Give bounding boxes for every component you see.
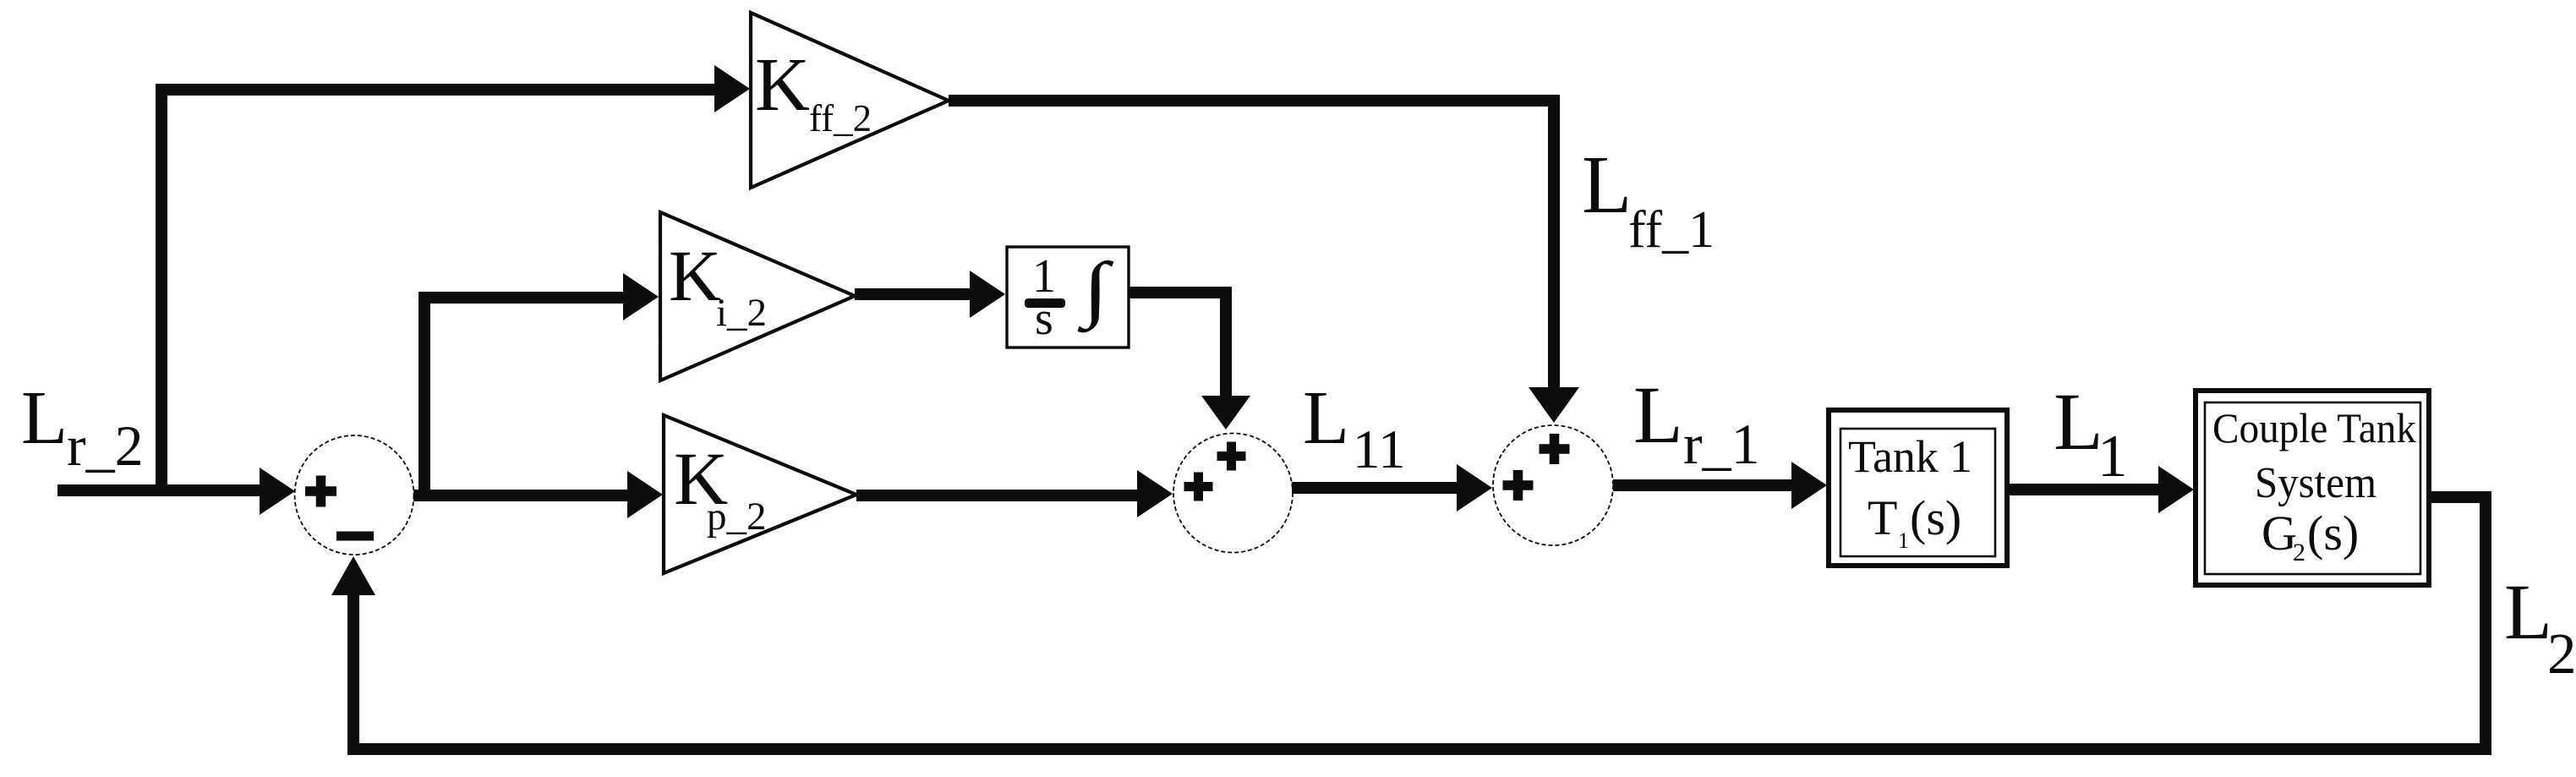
svg-text:L: L [1633, 369, 1683, 460]
svg-text:i_2: i_2 [716, 291, 767, 335]
svg-text:K: K [669, 235, 721, 316]
svg-text:L: L [2504, 569, 2552, 656]
node L_1 label [2054, 376, 2128, 490]
wire S3 output to Tank 1 [1613, 462, 1827, 509]
wire integrator output elbow down into summing junction S2 [1129, 287, 1250, 430]
wire K_i_2 output into integrator [855, 271, 1005, 318]
svg-text:(s): (s) [1910, 490, 1961, 545]
svg-text:2: 2 [2293, 539, 2305, 566]
svg-text:G: G [2262, 506, 2297, 561]
node L_ff_1 label [1582, 140, 1715, 259]
gain K_ff_2 triangle [751, 13, 949, 188]
svg-text:1: 1 [2097, 424, 2128, 490]
block Tank 1 T1(s) [1829, 410, 2007, 566]
wire K_p_2 output to S2 [856, 470, 1173, 517]
node L_11 label [1303, 376, 1406, 480]
gain K_i_2 triangle [660, 212, 855, 380]
svg-text:(s): (s) [2307, 506, 2359, 561]
wire S2 output to S3 [1292, 464, 1492, 512]
wire top horizontal to K_ff_2 [156, 65, 750, 112]
svg-text:System: System [2255, 459, 2376, 507]
svg-text:T: T [1868, 490, 1897, 545]
summing junction S1 [295, 435, 414, 555]
summing junction S2 [1173, 434, 1293, 553]
svg-text:L: L [1303, 376, 1349, 460]
svg-text:r_2: r_2 [67, 413, 144, 478]
svg-text:1: 1 [1898, 528, 1909, 553]
svg-text:Couple Tank: Couple Tank [2212, 404, 2416, 451]
svg-text:11: 11 [1353, 419, 1406, 480]
wire feedback up arrow into S1 bottom [331, 556, 375, 755]
node L_r_1 label [1633, 369, 1760, 476]
wire K_ff_2 output right then down (L_ff_1 wire) [949, 95, 1579, 423]
svg-text:s: s [1035, 293, 1053, 345]
node Lr_2 input label [21, 376, 144, 478]
gain K_p_2 triangle [664, 415, 856, 573]
svg-text:∫: ∫ [1077, 247, 1114, 333]
svg-text:p_2: p_2 [707, 495, 767, 539]
summing junction S3 [1493, 425, 1613, 545]
wire feedback from Couple Tank output down and along bottom [347, 491, 2491, 755]
svg-text:r_1: r_1 [1683, 412, 1760, 476]
wire branch vertical from input line up to feedforward line [156, 84, 167, 492]
wire branch up to K_i_2 [418, 273, 659, 501]
wire summing junction S1 output into K_p_2 [413, 471, 663, 518]
svg-text:ff_1: ff_1 [1628, 201, 1715, 259]
svg-text:L: L [21, 376, 68, 460]
svg-text:ff_2: ff_2 [809, 97, 872, 140]
svg-text:2: 2 [2547, 621, 2576, 686]
svg-text:L: L [1582, 140, 1632, 230]
wire input horizontal into summing junction S1 [57, 468, 295, 515]
svg-text:Tank 1: Tank 1 [1848, 431, 1972, 482]
integrator block 1/s [1007, 247, 1129, 347]
svg-text:K: K [755, 43, 810, 127]
block Couple Tank System G2(s) [2196, 391, 2429, 585]
wire Tank 1 output to Couple Tank [2006, 466, 2194, 513]
svg-text:L: L [2054, 376, 2103, 467]
node L_2 label [2504, 569, 2576, 686]
